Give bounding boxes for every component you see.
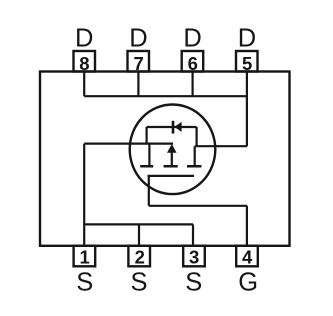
svg-text:1: 1 — [79, 246, 89, 267]
svg-text:S: S — [185, 269, 202, 297]
svg-text:4: 4 — [242, 246, 253, 267]
svg-text:D: D — [75, 24, 93, 52]
svg-text:7: 7 — [133, 53, 143, 74]
svg-text:2: 2 — [135, 246, 145, 267]
svg-text:D: D — [238, 24, 256, 52]
svg-text:8: 8 — [79, 53, 89, 74]
svg-text:6: 6 — [188, 53, 198, 74]
svg-text:5: 5 — [242, 53, 252, 74]
svg-text:D: D — [183, 24, 201, 52]
svg-text:G: G — [238, 269, 258, 297]
svg-text:3: 3 — [189, 246, 199, 267]
svg-text:S: S — [130, 269, 147, 297]
svg-text:D: D — [129, 24, 147, 52]
svg-text:S: S — [76, 269, 93, 297]
